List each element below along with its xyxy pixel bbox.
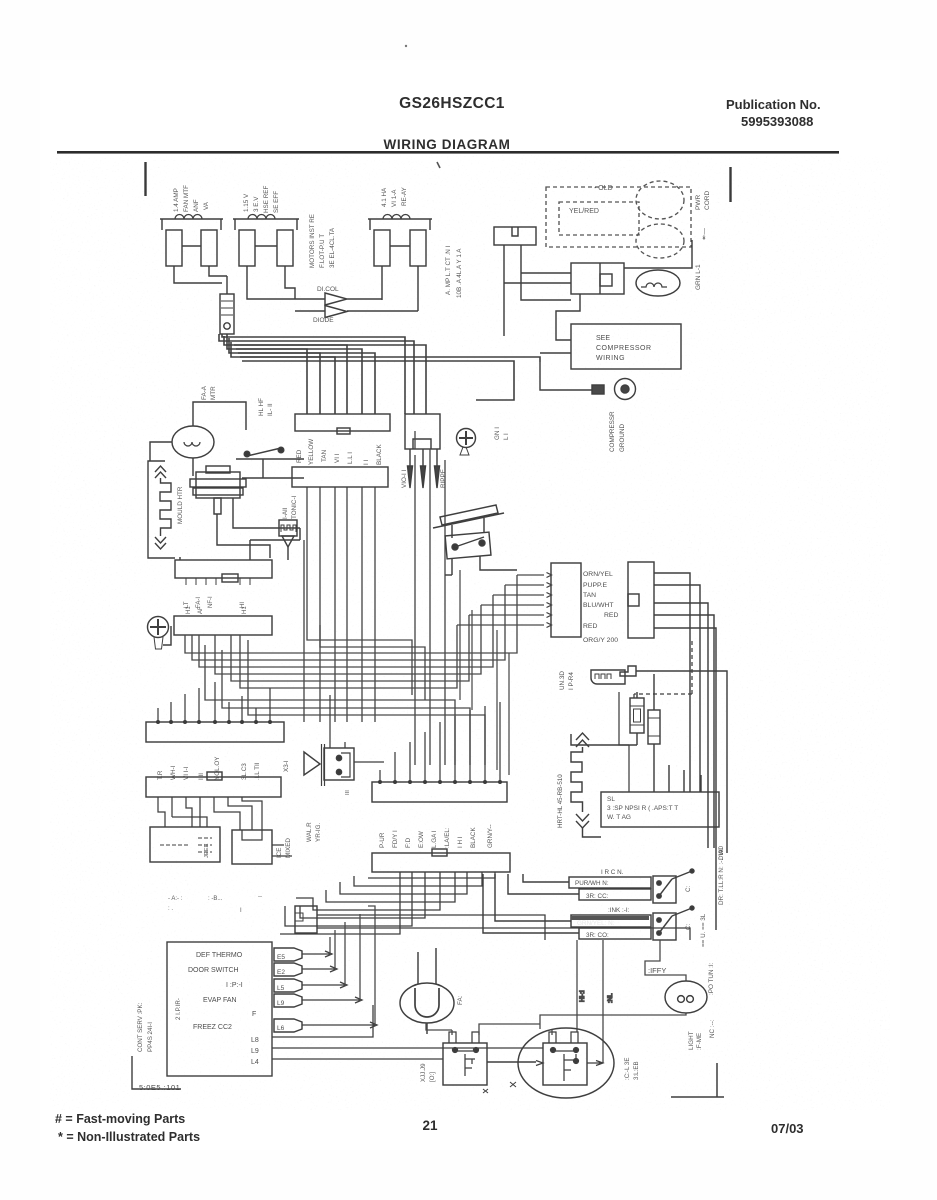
svg-text:X3-I: X3-I xyxy=(283,760,290,772)
svg-text:ICE: ICE xyxy=(276,848,283,859)
strip C pin stubs up xyxy=(158,682,270,722)
svg-text:3:L:EB: 3:L:EB xyxy=(633,1061,640,1080)
svg-text:I H I: I H I xyxy=(457,836,464,848)
connector H xyxy=(372,853,510,872)
terminal block left xyxy=(551,563,581,637)
defrost heater bracket xyxy=(148,461,175,558)
svg-text:GRN/YEL: N:: GRN/YEL: N: xyxy=(577,920,615,927)
svg-text:COMPRESSR: COMPRESSR xyxy=(609,411,616,452)
svg-text:DR: T.LL:R N: :-.: IA0: DR: T.LL:R N: :-.: IA0 xyxy=(718,845,725,905)
svg-text:L8: L8 xyxy=(251,1037,259,1044)
winding unit 3 rail stubs xyxy=(370,219,430,230)
svg-text:YR-IG.: YR-IG. xyxy=(315,823,322,842)
svg-text:FA-I: FA-I xyxy=(196,597,202,608)
heater arrow top chevrons xyxy=(155,466,166,478)
svg-text:E5: E5 xyxy=(277,954,285,961)
svg-text:Publication No.: Publication No. xyxy=(726,97,821,112)
wire from switch to left mesh xyxy=(445,574,452,576)
svg-text:L4: L4 xyxy=(251,1059,259,1066)
harness junction box I xyxy=(295,906,317,933)
heading rule xyxy=(57,151,839,154)
defrost thermostat flange xyxy=(190,479,246,487)
water valve triangle xyxy=(304,752,320,775)
heater 2 bottom wire xyxy=(583,828,602,837)
connector J2 inner notch xyxy=(413,439,431,449)
relay wire to compressor xyxy=(487,1061,536,1063)
diagram border corner bottom right xyxy=(671,1063,724,1097)
compressor frame link xyxy=(624,240,692,268)
svg-text::IFFY: :IFFY xyxy=(648,966,666,975)
fan motor top frame xyxy=(193,402,246,430)
thermostat stem xyxy=(214,498,221,514)
ground screw shank xyxy=(460,447,469,455)
winding unit 2 rail stubs xyxy=(235,219,297,230)
icemaker aux box xyxy=(150,827,220,862)
svg-text:F:D: F:D xyxy=(405,837,412,848)
svg-text:EVAP FAN: EVAP FAN xyxy=(203,997,237,1004)
compressor left tap xyxy=(536,1061,543,1066)
mesh wires lower set xyxy=(205,645,455,765)
ice maker box notch xyxy=(242,830,262,840)
evap fan wires xyxy=(418,948,436,1034)
connector strip C xyxy=(146,722,284,742)
svg-text::F-ME: :F-ME xyxy=(696,1033,703,1050)
freezer light switch tilted assembly xyxy=(433,513,504,528)
water valve mount plate xyxy=(322,744,325,786)
line cord plug connector xyxy=(494,227,536,245)
start relay box xyxy=(443,1043,487,1085)
svg-text:FAN MTF: FAN MTF xyxy=(183,185,190,212)
strip A bottom notch xyxy=(222,574,238,582)
heater arrow bottom chevrons xyxy=(155,537,166,549)
svg-text:LIGHT: LIGHT xyxy=(688,1031,695,1050)
svg-text:SE EFF: SE EFF xyxy=(273,191,280,213)
fresh food fan motor circle xyxy=(172,426,214,458)
winding unit 2 rail xyxy=(233,218,299,220)
light switch blade xyxy=(247,448,281,456)
winding unit 1 (evap fan motor windings) rail xyxy=(160,218,223,220)
svg-text:DI.COL: DI.COL xyxy=(317,286,339,293)
svg-text:I P-R4: I P-R4 xyxy=(568,672,575,690)
timer connector strip xyxy=(292,467,388,487)
svg-text:H1: H1 xyxy=(242,606,248,614)
svg-text:DEF THERMO: DEF THERMO xyxy=(196,952,243,959)
door switch assy 1 box xyxy=(653,876,676,903)
svg-text:C:: C: xyxy=(685,885,692,892)
ground screw lower left head xyxy=(148,617,169,638)
svg-text:RED: RED xyxy=(583,623,597,630)
compressor motor oval xyxy=(636,270,680,296)
middle vertical runs from timer strip xyxy=(307,487,412,695)
defrost heater 2 chevron arrows bottom xyxy=(576,814,589,828)
unused plug icon body xyxy=(591,670,625,684)
svg-text:L I: L I xyxy=(503,433,510,440)
see compressor wiring box xyxy=(571,324,681,369)
wires from winding unit 3 down xyxy=(382,266,418,311)
winding unit 3 (auger motor windings) rail xyxy=(368,218,432,220)
svg-text:A. MP L.T CT .N I: A. MP L.T CT .N I xyxy=(445,245,452,295)
strip D wires down to icemaker boxes xyxy=(158,797,200,827)
connector block J1 xyxy=(295,414,390,431)
svg-text:DOOR SWITCH: DOOR SWITCH xyxy=(188,967,239,974)
svg-text::NL: :NL xyxy=(607,993,614,1003)
winding unit 2 crossbar xyxy=(255,245,277,247)
dashed unused path vertical xyxy=(634,641,692,700)
relay inner pattern xyxy=(455,1051,476,1076)
svg-text:FD/Y I: FD/Y I xyxy=(392,830,399,848)
svg-text:1.4 AMP: 1.4 AMP xyxy=(173,188,180,212)
svg-text:JEEE: JEEE xyxy=(204,843,210,858)
relay internal tab xyxy=(600,274,612,286)
svg-text:== U. == 3L: == U. == 3L xyxy=(700,913,707,947)
svg-text:GRN/Y--: GRN/Y-- xyxy=(487,824,494,848)
svg-text:NF-I: NF-I xyxy=(208,596,214,608)
timer motor flag xyxy=(282,536,294,547)
scan dot top center xyxy=(405,45,407,47)
compressor inner box xyxy=(543,1043,587,1085)
wire relay bottom elbow xyxy=(556,294,580,340)
water valve bracket xyxy=(341,753,350,777)
aux box inner dashes xyxy=(160,838,212,852)
terminal lug E5 xyxy=(274,948,302,961)
winding unit 2 coil xyxy=(248,215,275,220)
svg-text:WAL.R: WAL.R xyxy=(306,822,313,842)
ground wire to strip B xyxy=(163,626,171,645)
svg-text:L9: L9 xyxy=(277,1000,285,1007)
svg-text:SEE: SEE xyxy=(596,335,610,342)
old style cord dashed outline xyxy=(546,187,691,247)
svg-text:COMPRESSOR: COMPRESSOR xyxy=(596,345,652,352)
svg-text:VIO-I I: VIO-I I xyxy=(401,470,408,488)
door switch assy 2 dark streak xyxy=(571,916,649,920)
long verticals continuing to bottom connectors xyxy=(303,540,305,722)
chassis ground screw head xyxy=(457,429,476,448)
defrost heater 2 zigzag xyxy=(571,747,583,812)
svg-text:F: F xyxy=(252,1011,256,1018)
svg-text:MIXED: MIXED xyxy=(285,838,292,858)
svg-text:TAN: TAN xyxy=(583,592,596,599)
svg-text:: -B...: : -B... xyxy=(208,896,223,902)
thermostat second wire xyxy=(233,498,300,540)
connector H harness elbows down-left xyxy=(280,872,400,934)
svg-text:1.15 V: 1.15 V xyxy=(243,193,250,212)
svg-text:4.1 HA: 4.1 HA xyxy=(381,187,388,207)
svg-text:NC :--:: NC :--: xyxy=(709,1019,716,1038)
svg-text:XJJ.J9: XJJ.J9 xyxy=(420,1063,427,1082)
svg-text:BLACK: BLACK xyxy=(470,827,477,848)
start relay contact dot xyxy=(224,323,230,329)
plug wire right xyxy=(521,245,571,300)
terminal lug E2 xyxy=(274,963,302,976)
bundle lines to right components xyxy=(234,345,347,414)
unused plug pins xyxy=(595,674,611,679)
evap fan U coil xyxy=(415,988,439,1017)
harness riser wires above connector G xyxy=(460,570,509,775)
svg-text:VA: VA xyxy=(203,201,210,210)
svg-text:L5: L5 xyxy=(277,985,285,992)
winding unit 1 rail stubs xyxy=(162,219,221,230)
svg-text:3 :SP NPSI R ( .APS:T T: 3 :SP NPSI R ( .APS:T T xyxy=(607,805,678,812)
heater element zigzag xyxy=(160,478,171,536)
fan motor coil marks xyxy=(184,442,200,446)
wires into dispenser box top xyxy=(619,692,629,792)
junction box I notch xyxy=(295,913,303,921)
svg-text:3 E.V: 3 E.V xyxy=(253,196,260,212)
svg-text::LA/EL:: :LA/EL: xyxy=(444,827,451,848)
svg-text:TAN: TAN xyxy=(321,449,328,462)
strip A feed wires xyxy=(180,540,300,560)
compressor ground eyelet sleeve xyxy=(592,385,604,394)
door switch assy 2 bar COM xyxy=(579,928,651,939)
lug wire E9 xyxy=(302,997,362,1003)
svg-text:H1: H1 xyxy=(186,606,192,614)
switch wires down xyxy=(452,556,517,575)
plug wire left xyxy=(503,245,505,336)
svg-text:GROUND: GROUND xyxy=(619,424,626,452)
connector strip A xyxy=(175,560,272,578)
door switch assy 1 bar NO xyxy=(569,877,651,888)
svg-text:2 I.P.IR-: 2 I.P.IR- xyxy=(175,998,182,1020)
fuse 1 caps xyxy=(630,706,644,725)
compressor relay box xyxy=(571,263,624,294)
deicer diode lower xyxy=(295,306,418,318)
door switch assy 1 bar COM xyxy=(579,889,651,900)
svg-text:PWR: PWR xyxy=(695,195,702,210)
strip D top notch xyxy=(207,772,222,780)
junction box wires right xyxy=(317,915,690,940)
svg-text:ANF: ANF xyxy=(193,199,200,212)
compressor motor coil xyxy=(641,283,667,287)
assy 2 lever xyxy=(672,908,692,916)
terminal lug E9 xyxy=(274,994,302,1007)
svg-text:HL HF: HL HF xyxy=(258,398,265,416)
svg-text:* = Non-Illustrated Parts: * = Non-Illustrated Parts xyxy=(58,1130,200,1144)
assy 2 contacts xyxy=(657,918,661,922)
unused plug connector tab xyxy=(620,666,636,676)
svg-text:VI I-I: VI I-I xyxy=(183,766,190,780)
wires from winding unit 1 down xyxy=(174,266,227,283)
fuse 1 inner xyxy=(634,709,641,722)
relay top stubs xyxy=(449,1032,479,1043)
svg-text:F.LOT-P.U T: F.LOT-P.U T xyxy=(319,234,326,268)
terminal block right tab xyxy=(628,594,639,606)
svg-text:FREEZ CC2: FREEZ CC2 xyxy=(193,1024,232,1031)
svg-text:ORN/YEL: ORN/YEL xyxy=(583,571,613,578)
winding unit 1 coil xyxy=(175,215,202,220)
def wire to lamp xyxy=(645,940,686,981)
svg-text:PUR/WH N:: PUR/WH N: xyxy=(575,880,609,887)
svg-text:HRT-HL 45-RB-510: HRT-HL 45-RB-510 xyxy=(557,774,564,828)
water valve body xyxy=(324,748,354,780)
board lower pin wires xyxy=(272,1005,373,1037)
lug wire L6 xyxy=(302,1022,377,1028)
connector J1 bottom notch xyxy=(337,428,350,434)
svg-text:MOTORS INST RE: MOTORS INST RE xyxy=(309,214,316,268)
svg-text:07/03: 07/03 xyxy=(771,1121,804,1136)
thermostat cap xyxy=(206,466,230,473)
lug wire E2 xyxy=(302,966,337,972)
start relay top wire xyxy=(226,276,228,294)
svg-text:IL- II: IL- II xyxy=(267,403,274,416)
svg-text:BLACK: BLACK xyxy=(376,444,383,465)
connector J2 xyxy=(405,414,440,449)
dispenser wiring box xyxy=(601,792,719,827)
y mark xyxy=(510,1082,516,1087)
svg-text::C:-L 3E: :C:-L 3E xyxy=(624,1058,631,1080)
svg-text:I :P:-I: I :P:-I xyxy=(226,982,243,989)
svg-text:- A:- :: - A:- : xyxy=(168,896,183,902)
water valve pins xyxy=(336,755,341,760)
old style cord dashed loop upper xyxy=(636,181,684,219)
svg-text:III: III xyxy=(345,790,351,795)
evap fan motor circle xyxy=(400,983,454,1023)
svg-text:3E EL-4CL.TA: 3E EL-4CL.TA xyxy=(329,227,336,268)
svg-text:PP4S 24I-I: PP4S 24I-I xyxy=(147,1022,154,1052)
winding unit 3 coil xyxy=(383,215,410,220)
long horizontal runs to terminal block arrows xyxy=(517,574,544,576)
fan motor bottom wire xyxy=(192,458,194,476)
connector G pins xyxy=(378,780,382,784)
fuse component 2 body xyxy=(648,710,660,744)
svg-text:WIRING DIAGRAM: WIRING DIAGRAM xyxy=(384,137,511,152)
winding unit 3 left box xyxy=(374,230,390,266)
svg-text:I R C N.: I R C N. xyxy=(601,869,624,876)
svg-text:L.GA I: L.GA I xyxy=(431,830,438,848)
svg-text:↞—: ↞— xyxy=(701,228,708,240)
svg-text:I-AII: I-AII xyxy=(282,507,289,519)
compressor inner pattern xyxy=(553,1051,576,1081)
svg-text:- OLD: - OLD xyxy=(594,185,613,192)
top left border tick xyxy=(144,162,146,196)
svg-text:10B .A 4L.A Y 1 A: 10B .A 4L.A Y 1 A xyxy=(456,248,463,298)
svg-text:WIRING: WIRING xyxy=(596,355,625,362)
connector G pin stubs up xyxy=(380,702,500,782)
svg-text:SL: SL xyxy=(607,796,615,803)
terminal block right xyxy=(628,562,654,638)
fan motor left wire to heater xyxy=(150,442,172,461)
svg-text:21: 21 xyxy=(422,1118,438,1133)
fuse 1 wires xyxy=(571,692,637,745)
winding unit 2 left box xyxy=(239,230,255,266)
svg-text:UN.3D: UN.3D xyxy=(559,671,566,690)
output wires from right block xyxy=(654,573,690,792)
svg-text:YEL/RED: YEL/RED xyxy=(569,208,599,215)
svg-text:RIPPE: RIPPE xyxy=(440,469,447,488)
defrost heater 2 chevron arrows top xyxy=(576,733,589,747)
small tick near node above auger winding xyxy=(437,162,440,168)
assy 1 contacts xyxy=(657,881,661,885)
svg-text:: .: : . xyxy=(168,906,173,912)
wire into wiring box xyxy=(540,352,571,354)
wire relay to bundle left xyxy=(504,273,571,283)
assy 1 lever xyxy=(672,871,692,879)
light switch contact dots xyxy=(244,451,250,457)
door switch assy 2 bar NO xyxy=(571,915,651,927)
svg-text:E2: E2 xyxy=(277,969,285,976)
svg-text:AF: AF xyxy=(198,606,204,614)
ice maker wires right xyxy=(272,845,292,856)
svg-text:GN I: GN I xyxy=(494,427,501,440)
strip C pins xyxy=(156,720,160,724)
timer motor coil bumps xyxy=(281,525,296,532)
svg-text:CONT SERV :PK:: CONT SERV :PK: xyxy=(137,1002,144,1052)
connector strip D xyxy=(146,777,281,797)
winding unit 1 left box xyxy=(166,230,182,266)
svg-text:P-UR: P-UR xyxy=(379,832,386,848)
timer motor wire xyxy=(287,547,289,560)
fuse 2 wires xyxy=(653,674,655,792)
svg-text:WH-I: WH-I xyxy=(170,765,177,780)
connector strip B xyxy=(174,616,272,635)
compressor contacts xyxy=(551,1048,556,1053)
relay internal divider xyxy=(599,263,601,294)
svg-text:3R: CC:: 3R: CC: xyxy=(586,893,609,900)
terminal lug L6 xyxy=(274,1019,302,1032)
svg-text:PUPP.E: PUPP.E xyxy=(583,582,608,589)
relay contacts xyxy=(453,1048,458,1053)
fuse component 1 body xyxy=(630,698,644,733)
fuse 2 caps xyxy=(648,718,660,736)
connector G xyxy=(372,782,507,802)
defrost thermostat body xyxy=(196,472,240,498)
deicer diode upper xyxy=(292,293,382,305)
svg-text:YELLOW: YELLOW xyxy=(308,439,315,465)
lamp coil xyxy=(678,996,685,1003)
wires from winding unit 2 down xyxy=(247,266,295,299)
svg-text:BLU/WHT: BLU/WHT xyxy=(583,602,614,609)
start relay hatches xyxy=(221,301,233,315)
svg-text:VI 1-A: VI 1-A xyxy=(391,189,398,207)
unused plug long wire xyxy=(636,671,727,853)
svg-text:FA-A: FA-A xyxy=(201,385,208,400)
svg-text:L.L I: L.L I xyxy=(347,452,354,464)
svg-text:E:OW: E:OW xyxy=(418,831,425,848)
svg-text:GRN L-1: GRN L-1 xyxy=(695,264,702,290)
light switch blade assembly xyxy=(236,459,290,478)
strip A tick marks xyxy=(186,578,250,585)
J2 pin arrows down xyxy=(408,449,413,488)
svg-text:RED: RED xyxy=(296,449,303,463)
input arrows into left block xyxy=(547,573,552,628)
svg-text:CORD: CORD xyxy=(704,191,711,210)
svg-text::INK :-I:: :INK :-I: xyxy=(608,907,630,914)
winding unit 3 right box xyxy=(410,230,426,266)
winding unit 3 crossbar xyxy=(390,245,410,247)
compressor oval xyxy=(518,1028,614,1098)
compressor top stubs xyxy=(549,1032,578,1043)
timer motor icon box xyxy=(279,520,297,536)
terminal lug L5 xyxy=(274,979,302,992)
wires above compressor xyxy=(426,1023,552,1035)
switch wire right xyxy=(285,459,304,478)
svg-text:I I: I I xyxy=(363,460,370,465)
svg-text:ORG/Y 200: ORG/Y 200 xyxy=(583,637,618,644)
svg-text:C:: C: xyxy=(685,923,692,930)
svg-text:MOULD HTR: MOULD HTR xyxy=(177,486,184,524)
lamp bottom wire xyxy=(540,1013,686,1029)
start relay body xyxy=(220,294,234,334)
dispenser feed verticals xyxy=(577,940,603,1063)
svg-text::PO TUN :I:: :PO TUN :I: xyxy=(708,962,715,995)
old style cord inner dashed box xyxy=(559,202,639,235)
svg-text:HSE REF: HSE REF xyxy=(263,186,270,213)
winding unit 1 right box xyxy=(201,230,217,266)
svg-text:GS26HSZCC1: GS26HSZCC1 xyxy=(399,95,505,112)
mesh wires from strip B to right xyxy=(185,575,517,653)
svg-text:TONIC-I: TONIC-I xyxy=(291,495,298,519)
compressor right tap arrow xyxy=(587,1061,603,1066)
svg-text:T.R: T.R xyxy=(157,770,164,780)
